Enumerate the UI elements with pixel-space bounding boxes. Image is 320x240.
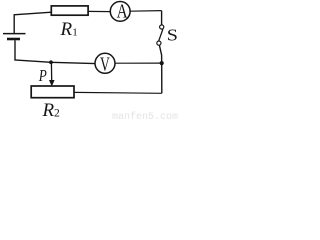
svg-text:manfen5.com: manfen5.com [112,111,178,123]
wire: voltmeter to junction [115,62,162,64]
svg-text:2: 2 [54,108,60,120]
svg-text:P: P [38,68,47,86]
svg-text:S: S [167,26,178,44]
voltmeter V [95,53,115,73]
wiper arrow head [49,80,55,87]
svg-text:R: R [42,100,55,121]
svg-text:R: R [60,19,73,40]
wire: switch to junction and bottom-right corner [159,45,161,93]
node: wiper junction [49,60,53,64]
node: junction of voltmeter branch [160,61,164,65]
svg-text:A: A [117,0,128,22]
wiper arrow P shaft [50,62,52,80]
wire: R2 to bottom-right corner [74,91,162,94]
wire: right vertical to switch [161,11,163,25]
ammeter A [110,2,130,22]
label P [38,68,47,86]
svg-text:1: 1 [72,27,78,39]
battery short plate (-) [7,38,20,41]
wire: R1 to ammeter [88,10,110,12]
wire: battery top lead [13,15,15,34]
switch S bottom terminal [157,41,161,45]
wire: top from battery to R1 [14,12,52,15]
wire: battery to voltmeter (middle wire) [14,60,95,64]
switch S lever [159,29,163,41]
wire: ammeter to top-right corner [130,10,162,13]
rheostat R2 [31,86,74,98]
label S [167,26,178,44]
resistor R1 [51,6,88,15]
wire: battery bottom lead [14,40,16,60]
switch S top terminal [160,25,164,29]
battery long plate (+) [3,33,26,35]
svg-text:V: V [100,53,110,75]
